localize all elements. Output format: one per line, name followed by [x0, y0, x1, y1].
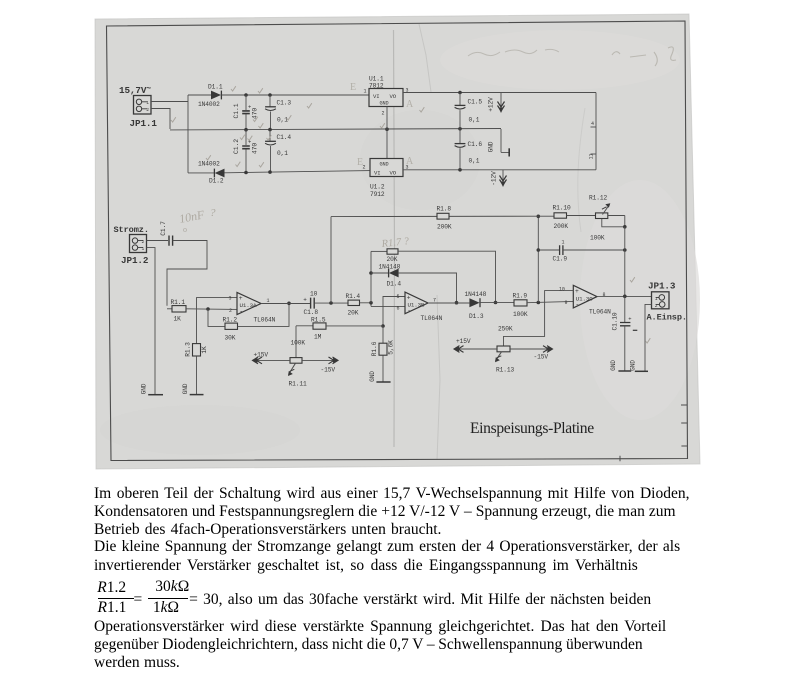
- svg-text:A: A: [406, 156, 414, 167]
- svg-text:1: 1: [364, 89, 367, 95]
- svg-text:GND: GND: [182, 383, 189, 394]
- capacitor C1.6: [459, 129, 461, 144]
- svg-text:C1.6: C1.6: [468, 141, 483, 148]
- ground: [190, 394, 204, 396]
- svg-text:GND: GND: [488, 141, 495, 152]
- wire output node vertical: [624, 227, 626, 296]
- svg-text:0,1: 0,1: [277, 150, 288, 157]
- wire JP1.1 pin2 to center bus: [151, 109, 170, 130]
- svg-text:GND: GND: [630, 360, 637, 371]
- svg-text:R1.5: R1.5: [311, 317, 326, 324]
- ground stub right: [501, 129, 509, 152]
- pin 11 tick: [591, 153, 597, 155]
- svg-text:R1.12: R1.12: [589, 195, 607, 202]
- svg-text:2: 2: [229, 308, 232, 314]
- svg-text:9: 9: [565, 300, 568, 306]
- scan crease lower: [437, 295, 440, 460]
- svg-text:R1.10: R1.10: [553, 205, 571, 212]
- junction dots top bus: [244, 93, 248, 97]
- wire U1.3B output: [428, 302, 469, 304]
- svg-text:1: 1: [655, 296, 658, 302]
- resistor 20K R1.7: [371, 250, 387, 252]
- svg-text:GND: GND: [610, 360, 617, 371]
- svg-text:o: o: [183, 225, 187, 234]
- svg-text:2: 2: [142, 239, 145, 245]
- svg-text:GND: GND: [380, 101, 389, 107]
- resistor R1.10: [538, 215, 554, 217]
- svg-text:C1.4: C1.4: [277, 134, 292, 141]
- svg-text:Einspeisungs-Platine: Einspeisungs-Platine: [470, 420, 594, 437]
- svg-text:-15V: -15V: [534, 354, 549, 361]
- wire feedback D1.4/20K vertical: [370, 251, 372, 302]
- regulator U1.2 7912: [370, 159, 403, 177]
- svg-text:0,1: 0,1: [469, 117, 480, 124]
- wire R1.3 to ground: [196, 356, 198, 395]
- svg-text:1N4148: 1N4148: [465, 291, 487, 298]
- svg-text:C1.9: C1.9: [553, 256, 568, 263]
- trimmer R1.12: [596, 213, 608, 219]
- resistor R1.6: [382, 326, 384, 343]
- svg-text:250K: 250K: [498, 326, 513, 333]
- svg-text:200K: 200K: [437, 224, 452, 231]
- +12V arrow: [500, 93, 502, 108]
- junction dots bottom bus: [244, 171, 248, 175]
- svg-text:2: 2: [146, 107, 149, 113]
- svg-text:R1.4: R1.4: [346, 293, 361, 300]
- capacitor C1.2: [245, 130, 247, 145]
- svg-text:JP1.3: JP1.3: [648, 281, 676, 292]
- wire pin5 to R1.5/R1.6 node: [383, 297, 405, 327]
- diode D1.3: [469, 298, 479, 307]
- wire R1.6 to ground: [382, 355, 384, 382]
- scan wrinkle top: [419, 24, 431, 92]
- trimmer R1.11: [295, 326, 297, 358]
- op-amp U1.3B: [405, 292, 428, 314]
- capacitor C1.8: [311, 298, 315, 309]
- svg-text:0,1: 0,1: [277, 117, 288, 124]
- wire R1.1 to pin2: [186, 308, 237, 311]
- svg-text:+: +: [303, 297, 307, 304]
- wire to D1.2: [188, 172, 214, 174]
- capacitor C1.3: [269, 95, 271, 107]
- connector JP1.1: [134, 96, 152, 115]
- svg-text:R1.3: R1.3: [185, 342, 192, 357]
- svg-text:2: 2: [655, 303, 658, 309]
- ground: [635, 370, 648, 372]
- resistor R1.4: [348, 300, 360, 305]
- svg-text:100K: 100K: [291, 340, 306, 347]
- svg-text:20K: 20K: [387, 256, 398, 263]
- wire -12V rail: [403, 169, 596, 171]
- resistor R1.8: [437, 213, 449, 219]
- junction dots center bus: [244, 128, 248, 132]
- svg-text:TL064N: TL064N: [421, 315, 443, 322]
- svg-text:VO: VO: [390, 93, 397, 100]
- svg-text:VI: VI: [373, 93, 380, 100]
- pin 4 tick: [591, 126, 597, 128]
- ground: [148, 394, 163, 396]
- svg-text:10: 10: [559, 287, 565, 293]
- svg-text:R1.9: R1.9: [513, 293, 528, 300]
- svg-text:C1.5: C1.5: [468, 99, 483, 106]
- diode D1.4: [371, 272, 388, 274]
- resistor R1.5: [296, 325, 313, 327]
- wire JP1.3 pin2 to ground: [645, 304, 652, 371]
- svg-text:-15V: -15V: [321, 367, 336, 374]
- svg-text:3: 3: [229, 296, 232, 302]
- svg-text:U1.3B: U1.3B: [408, 302, 426, 309]
- svg-text:10: 10: [310, 291, 318, 298]
- capacitor C1.10: [624, 296, 626, 322]
- svg-text:GND: GND: [369, 371, 376, 382]
- svg-text:+15V: +15V: [254, 352, 269, 359]
- R1.12 wiper arrow: [603, 205, 610, 215]
- wire 20K to D1.3 node: [398, 251, 496, 302]
- svg-text:U1.3A: U1.3A: [240, 302, 258, 309]
- wire pin9 node vertical: [537, 216, 539, 302]
- svg-text:A.Einsp.: A.Einsp.: [647, 313, 687, 323]
- wire C1.9 to output node: [563, 249, 625, 251]
- scan crease vertical: [394, 30, 395, 447]
- wire op-amp supply vertical: [595, 93, 597, 170]
- -12V arrow: [502, 170, 504, 181]
- wire U1.1 GND to center bus: [386, 107, 388, 159]
- resistor R1.2 feedback: [208, 309, 225, 326]
- wire +rail to U1.1 VI: [221, 94, 369, 96]
- svg-text:R1.8: R1.8: [437, 206, 452, 213]
- wire JP1.2 pin1 to ground: [147, 248, 156, 395]
- svg-text:R1.6: R1.6: [371, 341, 378, 356]
- op-amp U1.3A: [237, 292, 261, 314]
- svg-text:+: +: [575, 288, 579, 295]
- scanned paper background: [95, 14, 700, 469]
- svg-text:GND: GND: [380, 162, 389, 168]
- svg-text:JP1.2: JP1.2: [121, 255, 149, 266]
- svg-text:100K: 100K: [513, 311, 528, 318]
- svg-text:R1.11: R1.11: [289, 381, 307, 388]
- svg-text:GND: GND: [141, 383, 148, 394]
- svg-text:C1.10: C1.10: [612, 312, 619, 330]
- wire node A feedback bus: [331, 215, 538, 217]
- svg-text:D1.4: D1.4: [387, 281, 402, 288]
- connector JP1.2: [130, 235, 147, 253]
- svg-text:200K: 200K: [554, 223, 569, 230]
- svg-text:C1.7: C1.7: [160, 221, 167, 236]
- svg-text:6: 6: [397, 306, 400, 312]
- wire U1.3C output to JP1.3: [597, 296, 652, 298]
- svg-text:2: 2: [382, 111, 385, 117]
- svg-text:1N4002: 1N4002: [198, 101, 220, 108]
- svg-text:1: 1: [562, 240, 565, 246]
- svg-text:R1.1: R1.1: [171, 299, 186, 306]
- svg-text:A: A: [406, 99, 414, 110]
- wire pin10 to R1.13: [504, 291, 574, 346]
- wire U1.3A output: [261, 303, 310, 305]
- svg-text:1M: 1M: [314, 334, 322, 341]
- svg-text:C1.1: C1.1: [233, 103, 240, 118]
- wire R1.12 wrap: [602, 216, 625, 227]
- wire C1.7 to R1.1: [167, 241, 207, 306]
- resistor R1.3: [193, 344, 201, 356]
- wire JP1.1 pin1 to AC node: [151, 101, 188, 103]
- svg-text:Stromz.: Stromz.: [114, 225, 149, 235]
- op-amp U1.3C: [573, 285, 597, 308]
- R1.11 wiper arrow: [289, 363, 296, 374]
- svg-text:-: -: [407, 308, 411, 315]
- capacitor C1.5: [459, 93, 461, 106]
- svg-text:U1.3C: U1.3C: [576, 296, 594, 303]
- wire center bus: [170, 129, 501, 130]
- svg-text:7812: 7812: [369, 83, 384, 90]
- capacitor C1.1: [245, 95, 247, 110]
- resistor R1.1: [167, 308, 172, 310]
- pencil scribble top right: [468, 49, 559, 56]
- svg-text:5,6K: 5,6K: [388, 340, 395, 355]
- resistor R1.9: [514, 300, 527, 306]
- svg-text:R1.13: R1.13: [496, 367, 514, 374]
- svg-text:E: E: [357, 157, 363, 168]
- wire C1.8 to R1.4: [314, 302, 348, 304]
- regulator U1.1 7812: [369, 89, 403, 107]
- svg-text:D1.2: D1.2: [209, 178, 224, 185]
- capacitor C1.4: [269, 130, 271, 142]
- svg-text:1N4002: 1N4002: [198, 161, 220, 168]
- svg-text:+: +: [628, 316, 631, 323]
- svg-text:JP1.1: JP1.1: [130, 118, 158, 129]
- svg-text:?: ?: [210, 207, 216, 219]
- wire R1.10 to R1.12: [567, 215, 596, 217]
- wire pin3 to R1.3: [197, 298, 238, 344]
- wire R1.9 to pin9: [527, 301, 573, 302]
- scan wrinkle right: [578, 108, 585, 232]
- svg-text:1N4148: 1N4148: [379, 263, 401, 270]
- wire R1.2 to output: [238, 303, 290, 326]
- svg-text:4: 4: [591, 121, 594, 127]
- svg-text:C1.8: C1.8: [304, 309, 319, 316]
- svg-text:470: 470: [252, 143, 259, 154]
- connector JP1.3: [652, 292, 670, 309]
- svg-text:8: 8: [603, 292, 606, 298]
- svg-text:7912: 7912: [370, 191, 385, 198]
- node A vertical to feedback bus: [330, 217, 332, 303]
- svg-text:E: E: [350, 82, 356, 93]
- wire to D1.1: [188, 94, 211, 96]
- svg-text:30K: 30K: [225, 335, 236, 342]
- svg-text:TL064N: TL064N: [254, 317, 276, 324]
- wire C1.10 to ground: [624, 326, 626, 371]
- diode D1.2: [213, 169, 215, 178]
- wire +12V rail: [403, 92, 596, 94]
- capacitor C1.9: [538, 249, 559, 251]
- svg-text:1: 1: [146, 100, 149, 106]
- svg-text:U1.1: U1.1: [369, 76, 384, 83]
- svg-text:D1.1: D1.1: [208, 84, 223, 91]
- capacitor C1.7: [147, 240, 169, 242]
- svg-text:C1.2: C1.2: [233, 139, 240, 154]
- svg-text:C1.3: C1.3: [277, 100, 292, 107]
- schematic border frame: [107, 21, 688, 461]
- svg-text:20K: 20K: [348, 310, 359, 317]
- svg-text:U1.2: U1.2: [370, 184, 385, 191]
- wire R1.5 to node: [326, 325, 383, 327]
- svg-text:R1.2: R1.2: [223, 317, 238, 324]
- svg-text:-: -: [239, 308, 243, 315]
- svg-text:VO: VO: [390, 170, 397, 177]
- diode D1.1: [211, 91, 221, 100]
- wire D1.3 to R1.9: [480, 302, 514, 304]
- wire D1.4 to output: [399, 273, 457, 303]
- svg-text:+15V: +15V: [456, 338, 471, 345]
- svg-text:TL064N: TL064N: [589, 309, 611, 316]
- svg-text:D1.3: D1.3: [469, 313, 484, 320]
- svg-text:-12V: -12V: [491, 171, 498, 186]
- ground: [618, 370, 631, 372]
- svg-text:1K: 1K: [174, 316, 182, 323]
- svg-text:100K: 100K: [590, 235, 605, 242]
- R1.13 wiper arrow: [496, 352, 502, 361]
- wire R1.4 to U1.3B pin6: [360, 303, 406, 307]
- svg-text:1K: 1K: [201, 346, 208, 354]
- svg-text:VI: VI: [374, 170, 381, 177]
- frame tick marks: [620, 405, 688, 461]
- svg-text:11: 11: [589, 154, 595, 160]
- svg-text:0,1: 0,1: [469, 158, 480, 165]
- svg-text:+12V: +12V: [488, 97, 495, 112]
- ground: [376, 381, 390, 383]
- wire AC vertical: [187, 95, 189, 173]
- pencil check marks: [231, 86, 236, 91]
- svg-text:1: 1: [142, 246, 145, 252]
- wire -rail to U1.2 VI: [225, 171, 371, 173]
- svg-text:5: 5: [397, 294, 400, 300]
